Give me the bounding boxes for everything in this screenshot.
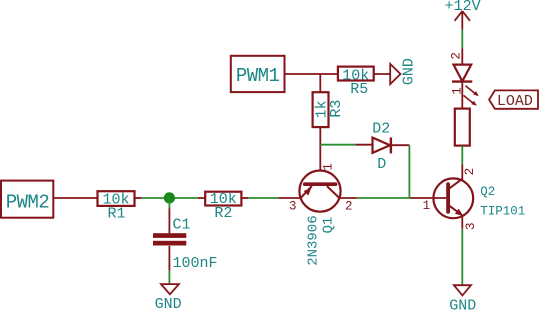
svg-text:GND: GND (155, 296, 182, 310)
R2 right pin (241, 197, 248, 199)
svg-text:GND: GND (449, 297, 476, 310)
wire Q2 emitter to GND (461, 229, 463, 285)
svg-text:100nF: 100nF (173, 255, 218, 272)
wire R1 to R2 (142, 197, 198, 199)
wire +12V to LED (461, 30, 463, 49)
svg-text:1: 1 (450, 87, 464, 95)
svg-text:3: 3 (464, 222, 478, 230)
svg-text:2: 2 (449, 52, 463, 60)
svg-text:1: 1 (321, 163, 335, 171)
svg-text:PWM2: PWM2 (6, 191, 50, 213)
svg-text:2: 2 (345, 199, 353, 213)
wire node to D2 anode (320, 144, 355, 146)
resistor R3 (313, 92, 345, 127)
resistor R5 (338, 67, 374, 98)
resistor R4 (load series) (455, 109, 470, 146)
transistor Q2 TIP101 (433, 178, 525, 218)
ground (bottom left) (155, 284, 182, 310)
svg-text:C1: C1 (173, 216, 191, 233)
svg-text:3: 3 (289, 199, 297, 213)
svg-text:R3: R3 (328, 100, 345, 118)
wire Q1 collector to Q2 base (357, 197, 410, 199)
C1 bottom pin (168, 246, 170, 271)
svg-text:2N3906: 2N3906 (305, 215, 321, 265)
C1 top pin (168, 209, 170, 234)
Q2 pin 1 (410, 197, 446, 199)
R3 pin top (319, 74, 321, 92)
PWM1 pin / R5 pin (285, 73, 338, 75)
resistor R1 (98, 191, 135, 222)
wire junction to C1 (168, 198, 170, 209)
wire D2 to Q2 base rail (408, 145, 410, 198)
svg-text:R1: R1 (108, 205, 126, 222)
Q2 pin 3 (461, 216, 463, 229)
svg-text:D: D (377, 156, 386, 173)
LED D1 pin 1 (461, 82, 463, 109)
wire R4 to Q2 collector (461, 146, 463, 165)
svg-text:D2: D2 (372, 121, 390, 138)
Q2 pin 2 (461, 165, 463, 180)
global label LOAD (489, 90, 538, 110)
power +12V (445, 0, 481, 30)
junction node (164, 192, 175, 203)
Q1 pin 2 (339, 197, 356, 199)
ground (right of R5, rotated) (390, 58, 418, 85)
LED D1 (452, 65, 479, 106)
D2 cathode pin (391, 144, 409, 146)
connector PWM1 (231, 56, 285, 92)
diode D2 (372, 121, 391, 174)
transistor Q1 2N3906 (299, 171, 340, 266)
resistor R2 (205, 191, 241, 222)
ground (bottom right) (449, 285, 476, 310)
LED D1 pin 2 (461, 48, 463, 64)
wire R2 to Q1 base (249, 197, 279, 199)
svg-text:PWM1: PWM1 (236, 65, 280, 87)
svg-text:R2: R2 (214, 205, 232, 222)
svg-text:1: 1 (423, 199, 431, 213)
svg-text:R5: R5 (350, 81, 368, 98)
wire C1 to GND (168, 271, 170, 284)
connector PWM2 (1, 181, 53, 218)
svg-text:Q2: Q2 (480, 185, 495, 199)
D2 anode pin (355, 144, 372, 146)
svg-text:LOAD: LOAD (497, 93, 533, 110)
svg-text:TIP101: TIP101 (480, 204, 525, 218)
svg-text:2: 2 (463, 168, 477, 176)
svg-text:GND: GND (401, 58, 418, 85)
R1 right pin (135, 197, 142, 199)
R3 pin bottom / Q1 pin 1 (319, 127, 321, 184)
R2 left pin (198, 197, 205, 199)
svg-text:Q1: Q1 (320, 217, 336, 234)
R5 pin to GND (374, 73, 391, 75)
Q1 pin 3 (279, 197, 301, 199)
capacitor C1 (153, 216, 218, 272)
PWM2 pin (53, 197, 97, 199)
